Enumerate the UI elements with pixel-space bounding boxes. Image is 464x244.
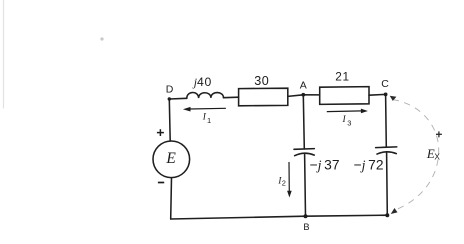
capacitor C72 bottom curved plate: [377, 152, 396, 154]
svg-text:1: 1: [207, 116, 211, 125]
svg-text:C: C: [381, 78, 389, 90]
svg-text:j40: j40: [192, 75, 212, 89]
wire inductor to R30: [224, 96, 239, 99]
svg-text:3: 3: [347, 119, 351, 128]
source E circle: [153, 141, 190, 178]
capacitor C72 top plate: [376, 146, 397, 149]
svg-text:E: E: [165, 150, 176, 167]
inductor j40: [187, 92, 224, 98]
svg-text:B: B: [303, 222, 309, 232]
arrowhead of Ex arc at node C: [390, 96, 397, 101]
svg-text:−j 37: −j 37: [310, 158, 340, 173]
capacitor C37 top plate: [294, 148, 314, 151]
wire node A to R21: [303, 94, 319, 96]
resistor R30 box: [239, 88, 288, 106]
svg-text:X: X: [434, 151, 440, 161]
current arrow I3: [327, 109, 368, 114]
label + of Ex: [436, 131, 442, 137]
svg-text:I: I: [342, 115, 347, 125]
scan artifact smudge: [100, 37, 103, 40]
dashed arc Ex: [393, 100, 439, 211]
svg-text:−j 72: −j 72: [354, 158, 384, 173]
capacitor C37 bottom curved plate: [295, 153, 315, 156]
node D: [168, 97, 171, 100]
node B: [304, 214, 308, 218]
svg-text:21: 21: [335, 69, 349, 83]
svg-text:30: 30: [254, 74, 269, 88]
wire node C down to capacitor C72: [385, 94, 388, 147]
wire R21 to node C: [369, 93, 386, 96]
current arrow I2: [287, 162, 292, 198]
node bottom-right junction: [385, 213, 389, 217]
wire D to inductor: [169, 97, 187, 100]
scan artifact left edge line: [3, 0, 5, 108]
svg-text:A: A: [300, 79, 307, 91]
current arrow I1: [183, 107, 226, 112]
wire D down to source: [168, 99, 171, 141]
wire node A down to capacitor C37: [303, 95, 304, 149]
resistor R21 box: [320, 87, 369, 105]
wire capacitor C37 to node B: [304, 153, 307, 216]
svg-text:2: 2: [282, 179, 286, 188]
bottom wire left corner to B: [171, 216, 306, 219]
bottom wire B to bottom right corner: [306, 215, 388, 216]
node A: [301, 93, 305, 97]
wire source to bottom left corner: [170, 178, 173, 219]
label + of source: [157, 129, 164, 136]
wire capacitor C72 to bottom right corner: [386, 152, 389, 215]
svg-text:D: D: [166, 83, 174, 95]
label - of source: [158, 182, 164, 184]
wire R30 to node A: [288, 95, 304, 97]
arrowhead of Ex arc at node B: [391, 208, 398, 214]
node C: [384, 93, 388, 97]
